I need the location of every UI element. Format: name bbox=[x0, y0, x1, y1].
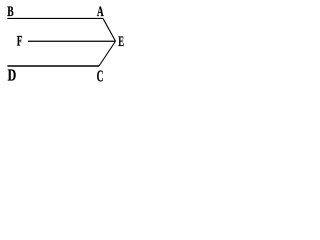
svg-text:C: C bbox=[97, 67, 104, 85]
svg-text:F: F bbox=[17, 34, 23, 50]
segment DC (bottom line) bbox=[7, 65, 99, 67]
segment FE (middle line) bbox=[28, 40, 116, 42]
segment BA (top line) bbox=[7, 17, 103, 19]
svg-text:B: B bbox=[7, 4, 13, 20]
svg-text:E: E bbox=[118, 34, 124, 50]
segment CE (diagonal) bbox=[99, 41, 116, 66]
segment AE (diagonal) bbox=[103, 18, 116, 41]
svg-text:A: A bbox=[97, 4, 104, 20]
svg-text:D: D bbox=[8, 66, 17, 85]
